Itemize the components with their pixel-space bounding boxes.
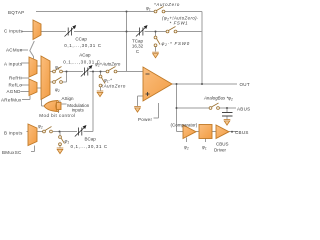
svg-text:RefHi: RefHi [9,76,22,81]
svg-text:φ1: φ1 [146,6,151,12]
svg-text:!AutoZero: !AutoZero [102,84,126,89]
svg-text:ACap: ACap [79,53,91,58]
svg-text:BMuxSC: BMuxSC [2,150,22,155]
svg-text:RefLo: RefLo [9,82,23,87]
svg-text:0,1,...,30,31 C: 0,1,...,30,31 C [64,43,101,48]
svg-text:*AutoZero: *AutoZero [154,2,180,7]
svg-text:CCap: CCap [75,37,87,42]
svg-text:φ2: φ2 [184,145,189,151]
svg-text:A inputs: A inputs [4,62,23,67]
svg-text:ASign: ASign [62,96,75,101]
svg-text:C: C [136,49,140,54]
svg-text:inputs: inputs [72,108,85,113]
svg-text:φ2: φ2 [38,124,43,130]
svg-text:AnalogBus *φ2: AnalogBus *φ2 [203,96,233,102]
svg-text:φ1: φ1 [65,139,70,145]
svg-text:BQTAP: BQTAP [8,10,24,15]
svg-text:φ1: φ1 [202,145,207,151]
svg-text:CBUS: CBUS [216,142,229,147]
svg-text:ACMux: ACMux [6,48,23,53]
svg-text:Power: Power [138,117,152,122]
svg-text:φ2+AutoZero: φ2+AutoZero [95,62,121,68]
svg-text:ARefMux: ARefMux [1,98,22,103]
svg-text:AGND: AGND [7,89,22,94]
svg-text:(Comparator): (Comparator) [171,123,198,128]
svg-text:φ2: φ2 [55,87,60,93]
svg-text:Driver: Driver [214,148,227,153]
svg-text:16,32: 16,32 [132,44,144,49]
svg-text:* FSW1: * FSW1 [170,21,189,26]
svg-text:B inputs: B inputs [4,131,23,136]
svg-text:CBUS: CBUS [235,130,249,135]
svg-text:φ2·* FSW0: φ2·* FSW0 [162,41,190,47]
svg-text:ABUS: ABUS [237,107,250,112]
svg-text:Mod bit control: Mod bit control [39,113,75,118]
svg-text:BCap: BCap [85,137,97,142]
svg-text:OUT: OUT [240,82,250,87]
svg-text:0,1,...,30,31 C: 0,1,...,30,31 C [71,144,108,149]
svg-text:C inputs: C inputs [4,29,23,34]
